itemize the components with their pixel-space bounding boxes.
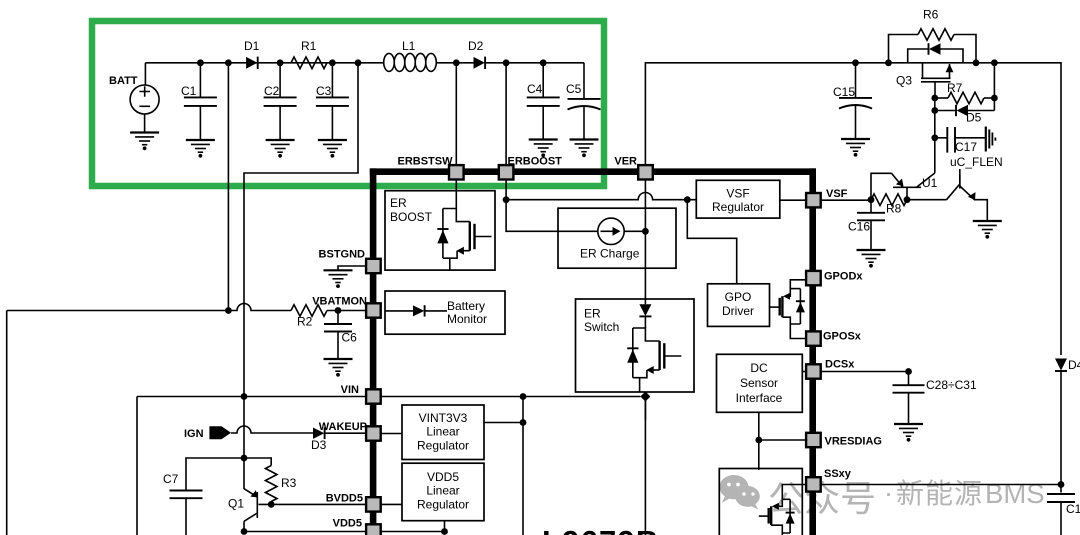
wire Q3 gate column down bbox=[934, 98, 936, 173]
chip right edge bbox=[809, 168, 816, 535]
ER Switch mosfet bbox=[633, 316, 682, 392]
svg-text:U1: U1 bbox=[922, 176, 938, 190]
right NPN: bar bbox=[959, 175, 961, 189]
svg-text:uC_FLEN: uC_FLEN bbox=[950, 155, 1003, 169]
ground (C28-C31) bbox=[894, 424, 923, 441]
collector lead up to C17 node column bbox=[917, 173, 935, 187]
SS mosfet bbox=[759, 485, 806, 535]
SS block (squib driver) bbox=[719, 469, 806, 535]
node dot C2 bbox=[277, 59, 284, 66]
wire DC sensor to VRESDIAG and SS block bbox=[758, 412, 760, 470]
svg-text:IGN: IGN bbox=[184, 428, 204, 440]
pin VDD5 bbox=[366, 524, 381, 535]
diode D3 bbox=[313, 428, 324, 439]
svg-text:Q1: Q1 bbox=[228, 497, 244, 511]
node dot ERBOOST inner bbox=[503, 196, 510, 203]
base lead down bbox=[906, 187, 908, 199]
pin DCSx bbox=[806, 364, 821, 378]
svg-text:BATT: BATT bbox=[109, 75, 138, 87]
ground (C3) bbox=[318, 140, 347, 157]
ground (C15) bbox=[841, 139, 870, 156]
GPO Driver block bbox=[708, 284, 770, 327]
pin VRESDIAG bbox=[806, 433, 821, 447]
chip left edge bbox=[370, 168, 377, 535]
battery source BATT bbox=[130, 63, 159, 133]
ER BOOST mosfet bbox=[443, 180, 492, 271]
svg-text:R6: R6 bbox=[923, 8, 939, 22]
svg-text:SSxy: SSxy bbox=[824, 468, 852, 480]
IGN connector symbol bbox=[209, 426, 231, 439]
wire down to ERBOOST pin bbox=[505, 63, 507, 165]
ER BOOST box bbox=[385, 191, 495, 270]
wire down from rail to VBATMON net bbox=[227, 63, 229, 311]
svg-text:C3: C3 bbox=[316, 84, 332, 98]
svg-text:ER Charge: ER Charge bbox=[580, 247, 640, 261]
chip boundary L9679B bbox=[370, 168, 816, 535]
svg-text:Battery: Battery bbox=[447, 299, 485, 313]
svg-text:R2: R2 bbox=[297, 315, 313, 329]
wire from rail down and left to chip-left column bbox=[244, 63, 358, 489]
wire VBATMON long horizontal with hop at x=244 bbox=[7, 304, 291, 311]
svg-text:Sensor: Sensor bbox=[740, 376, 778, 390]
svg-text:C15: C15 bbox=[833, 85, 855, 99]
wire down to ERBSTSW pin bbox=[455, 63, 457, 165]
svg-text:BSTGND: BSTGND bbox=[319, 249, 366, 261]
node dot C3 bbox=[329, 59, 336, 66]
wire branch to R3 bbox=[244, 458, 271, 466]
svg-text:Q3: Q3 bbox=[896, 74, 912, 88]
node dot VSF reg input branch bbox=[684, 196, 691, 203]
wire VER pin down through ER charge node bbox=[644, 180, 646, 305]
svg-text:VER: VER bbox=[614, 156, 637, 168]
capacitor C3 bbox=[316, 63, 349, 140]
node dot R3/base bbox=[268, 501, 275, 508]
svg-text:DC: DC bbox=[750, 361, 768, 375]
node dot C4 bbox=[540, 59, 547, 66]
svg-text:ERBSTSW: ERBSTSW bbox=[398, 156, 454, 168]
pin ERBOOST bbox=[499, 165, 514, 179]
svg-text:R1: R1 bbox=[301, 39, 317, 53]
diode across Q3 (pointing left) bbox=[908, 43, 963, 63]
wechat icon watermark bbox=[720, 475, 760, 510]
inductor L1 bbox=[384, 53, 437, 71]
svg-text:Regulator: Regulator bbox=[417, 439, 469, 453]
wire VIN horizontal bbox=[137, 396, 366, 398]
resistor R7 bbox=[931, 81, 997, 104]
svg-text:C28÷C31: C28÷C31 bbox=[926, 378, 977, 392]
resistor R3 (vertical) bbox=[265, 466, 277, 502]
wire R3 to base wire bbox=[270, 502, 272, 505]
wire BVDD5 pin to VDD5 regulator bbox=[381, 503, 402, 505]
wire uC_FLEN down to U1 base bbox=[959, 169, 961, 188]
wire right vertical lower bbox=[1060, 371, 1062, 493]
svg-text:Regulator: Regulator bbox=[712, 200, 764, 214]
pin VBATMON bbox=[366, 303, 381, 317]
svg-text:D2: D2 bbox=[468, 39, 484, 53]
wire VER column lower part bbox=[644, 397, 646, 535]
svg-text:D3: D3 bbox=[311, 438, 327, 452]
capacitor C16 bbox=[870, 200, 872, 213]
diamond junction bbox=[640, 392, 650, 402]
node dot ERBOOST bbox=[503, 59, 510, 66]
VSF Regulator block bbox=[696, 180, 780, 218]
wire VSF reg to VSF pin bbox=[780, 199, 806, 201]
pin BVDD5 bbox=[366, 497, 381, 511]
wire R8 to U1 right collector bbox=[907, 199, 947, 201]
ER BOOST block bbox=[385, 180, 495, 271]
wire far-left vertical bbox=[6, 311, 8, 535]
svg-text:BVDD5: BVDD5 bbox=[326, 493, 363, 505]
capacitor C17 bbox=[935, 127, 986, 154]
svg-text:C2: C2 bbox=[264, 84, 280, 98]
node dot ERBSTSW bbox=[453, 59, 460, 66]
svg-text:VDD5: VDD5 bbox=[427, 470, 459, 484]
pin WAKEUP bbox=[366, 426, 381, 440]
svg-text:VSF: VSF bbox=[726, 187, 749, 201]
svg-text:C17: C17 bbox=[955, 140, 977, 154]
pin ERBSTSW bbox=[449, 165, 464, 179]
transistor pair U1 bbox=[871, 173, 987, 221]
ground (C4) bbox=[529, 140, 558, 157]
wire R2 to pin bbox=[327, 310, 366, 312]
ER Charge block bbox=[506, 200, 676, 269]
pin BSTGND bbox=[366, 259, 381, 273]
svg-text:BMS: BMS bbox=[985, 478, 1045, 509]
svg-text:GPODx: GPODx bbox=[824, 271, 863, 283]
wire Q1 collector down to VDD5 net bbox=[243, 521, 245, 531]
wire into ER charge bbox=[506, 200, 598, 232]
svg-text:Linear: Linear bbox=[426, 484, 459, 498]
svg-text:新能源: 新能源 bbox=[896, 478, 983, 509]
node dot C7/R3 branch bbox=[241, 455, 248, 462]
svg-text:WAKEUP: WAKEUP bbox=[319, 421, 367, 433]
svg-text:Monitor: Monitor bbox=[447, 312, 487, 326]
ground (C1) bbox=[186, 140, 215, 157]
svg-text:GPO: GPO bbox=[725, 290, 752, 304]
svg-text:VINT3V3: VINT3V3 bbox=[419, 411, 468, 425]
SSxy wire bbox=[821, 484, 1061, 486]
ground (BATT) bbox=[130, 133, 159, 150]
svg-text:D4: D4 bbox=[1068, 358, 1080, 372]
svg-text:Switch: Switch bbox=[584, 320, 619, 334]
diode D1 bbox=[246, 57, 258, 69]
node dot VINT3V3 branch bbox=[520, 393, 527, 400]
svg-text:L9679B: L9679B bbox=[542, 524, 660, 535]
svg-text:BOOST: BOOST bbox=[390, 210, 433, 224]
diode D4 on right vertical bbox=[1055, 359, 1067, 371]
pin VIN bbox=[366, 389, 381, 403]
ground (C2) bbox=[266, 140, 295, 157]
svg-text:Driver: Driver bbox=[722, 304, 754, 318]
DCSx wire bbox=[821, 371, 909, 373]
wire WAKEUP pin to VINT3V3 bbox=[381, 433, 402, 435]
svg-text:C16: C16 bbox=[848, 220, 870, 234]
capacitor C2 bbox=[264, 63, 297, 140]
svg-text:ER: ER bbox=[584, 307, 601, 321]
VDD5 Linear Regulator block bbox=[402, 463, 484, 521]
svg-text:ER: ER bbox=[390, 196, 407, 210]
capacitor C6 bbox=[337, 311, 339, 325]
WATERMARK bbox=[720, 475, 1045, 519]
wire top rail bbox=[145, 62, 584, 64]
diode inside battery monitor bbox=[385, 310, 413, 312]
stub VDD5 box to VDD5 wire bbox=[444, 521, 446, 532]
node dot C6 tap bbox=[335, 307, 342, 314]
transistor Q3 (p-mosfet) bbox=[921, 63, 953, 98]
wire branch to C7 bbox=[186, 458, 244, 491]
pin SSxy bbox=[806, 477, 821, 491]
top rail wire BATT to C5 bbox=[109, 39, 601, 489]
node dot branch down bbox=[225, 59, 232, 66]
svg-text:GPOSx: GPOSx bbox=[823, 331, 862, 343]
VBATMON net bbox=[7, 304, 366, 535]
top right rail bbox=[645, 63, 1061, 355]
svg-text:DCSx: DCSx bbox=[825, 359, 855, 371]
DC Sensor Interface block bbox=[717, 354, 807, 412]
svg-text:C6: C6 bbox=[342, 331, 358, 345]
svg-text:VDD5: VDD5 bbox=[333, 518, 362, 530]
green highlight rectangle bbox=[92, 21, 604, 186]
capacitor C15 (curved plate) bbox=[855, 63, 857, 98]
ground (U1 emitter) bbox=[973, 221, 1002, 238]
wire VINT3V3 output bbox=[484, 422, 523, 424]
wire rail to R7 right bbox=[993, 63, 995, 111]
svg-text:C7: C7 bbox=[163, 472, 179, 486]
node dot from top rail branch bbox=[225, 307, 232, 314]
diode at ER switch input bbox=[639, 304, 651, 316]
resistor R2 bbox=[291, 305, 327, 317]
resistor R8 bbox=[871, 194, 907, 206]
wire IGN to D3 with hop bbox=[231, 426, 313, 433]
svg-text:R8: R8 bbox=[886, 202, 902, 216]
GPO output mosfet bbox=[770, 280, 807, 339]
pin VSF bbox=[806, 193, 821, 207]
VIN net bbox=[137, 393, 640, 535]
node dot at x=244 bbox=[241, 393, 248, 400]
svg-text:Interface: Interface bbox=[736, 391, 783, 405]
ground (C6) bbox=[324, 359, 353, 376]
ground (C16) bbox=[857, 250, 886, 267]
svg-text:VBATMON: VBATMON bbox=[312, 296, 367, 308]
svg-text:Regulator: Regulator bbox=[417, 498, 469, 512]
node dot branch to ERBSTSW column bbox=[355, 59, 362, 66]
svg-text:L1: L1 bbox=[402, 39, 416, 53]
VSF wire from pin bbox=[821, 199, 871, 201]
pins (gray squares) bbox=[366, 165, 821, 535]
BSTGND ground symbol bbox=[324, 266, 367, 287]
svg-text:Linear: Linear bbox=[426, 425, 459, 439]
svg-text:C5: C5 bbox=[566, 82, 582, 96]
pin GPOSx bbox=[806, 331, 821, 345]
svg-text:R3: R3 bbox=[281, 476, 297, 490]
svg-text:D1: D1 bbox=[244, 39, 260, 53]
node dot C17 tap bbox=[931, 134, 938, 141]
svg-text:VRESDIAG: VRESDIAG bbox=[825, 436, 882, 448]
svg-text:C4: C4 bbox=[527, 82, 543, 96]
capacitor C5 (curved plate) bbox=[568, 63, 601, 140]
capacitor C18 bbox=[1047, 494, 1075, 502]
capacitor C4 bbox=[527, 63, 560, 140]
node dot C1 bbox=[197, 59, 204, 66]
off-page bars symbol bbox=[986, 127, 996, 152]
chip top edge bbox=[370, 168, 816, 175]
VINT3V3 Linear Regulator block bbox=[402, 405, 484, 460]
capacitor C1 bbox=[184, 63, 217, 140]
VDD5 wire bbox=[244, 531, 366, 533]
svg-text:C1: C1 bbox=[181, 84, 197, 98]
resistor R6 loop bbox=[885, 8, 979, 67]
diode D5 (pointing left) bbox=[931, 105, 994, 125]
node dot ER charge out on VER column bbox=[642, 228, 649, 235]
svg-text:D5: D5 bbox=[966, 111, 982, 125]
node dot C15 bbox=[852, 59, 859, 66]
svg-text:·: · bbox=[884, 478, 893, 508]
capacitor C7 bbox=[170, 491, 203, 499]
svg-text:R7: R7 bbox=[947, 81, 963, 95]
left PNP: bar bbox=[893, 186, 921, 188]
ER Switch block bbox=[576, 299, 695, 392]
capacitor C28-C31 bbox=[908, 372, 910, 386]
ground (C5) bbox=[570, 140, 599, 157]
wire ERBOOST node to VSF Regulator (with hop over VER line) bbox=[506, 180, 696, 200]
transistor Q1 (PNP) bbox=[244, 489, 366, 522]
pin GPODx bbox=[806, 271, 821, 285]
resistor R1 bbox=[291, 57, 327, 69]
emitter diagonal with arrow to ground bbox=[960, 186, 988, 221]
diode D2 bbox=[474, 57, 486, 69]
svg-text:C18: C18 bbox=[1066, 502, 1080, 516]
svg-text:VSF: VSF bbox=[826, 188, 848, 200]
svg-text:VIN: VIN bbox=[341, 384, 359, 396]
wire ER switch to VIN rail junction bbox=[644, 392, 646, 420]
collector diagonal to left wire bbox=[947, 184, 960, 200]
pin VER bbox=[638, 165, 653, 179]
emitter lead bbox=[871, 173, 892, 199]
svg-text:ERBOOST: ERBOOST bbox=[508, 156, 563, 168]
ER Charge circle (current source) bbox=[598, 218, 624, 244]
Battery Monitor block bbox=[385, 291, 505, 334]
wire branch to GPO Driver bbox=[687, 200, 736, 284]
